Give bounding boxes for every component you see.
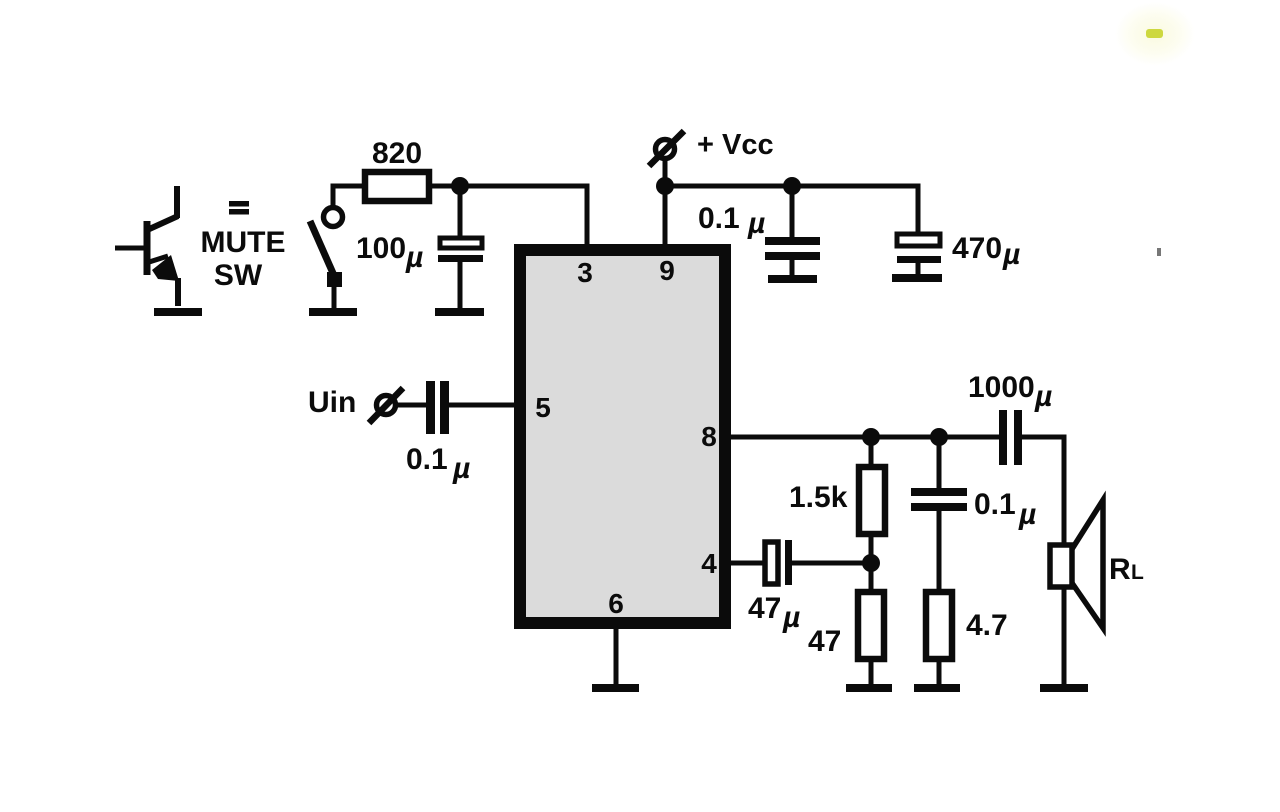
svg-text:8: 8	[701, 421, 717, 452]
wire junction D to feedback cap	[937, 437, 942, 491]
svg-text:µ: µ	[1034, 380, 1052, 413]
ground (4.7 resistor)	[914, 684, 960, 692]
label 0.1u (input)	[406, 443, 470, 485]
label 47u	[748, 592, 800, 634]
svg-text:µ: µ	[782, 601, 800, 634]
resistor R 1.5k	[859, 467, 885, 534]
gray speck	[1157, 248, 1161, 256]
svg-text:470: 470	[952, 232, 1002, 265]
svg-text:Uin: Uin	[308, 386, 356, 419]
speaker RL	[1050, 500, 1103, 628]
ground (pin 6)	[592, 684, 639, 692]
node junction C	[862, 428, 880, 446]
resistor R 820	[365, 172, 429, 201]
op-amp U1 (IC body)	[520, 250, 725, 623]
wire junction C to 1.5k	[869, 437, 874, 467]
capacitor C 0.1u (Vcc decoupling)	[765, 241, 820, 276]
node junction E	[862, 554, 880, 572]
node Vcc junction	[656, 177, 674, 195]
svg-text:47: 47	[808, 625, 841, 658]
capacitor C 100u (polarized)	[438, 238, 483, 308]
svg-text:47: 47	[748, 592, 781, 625]
svg-text:0.1: 0.1	[698, 202, 740, 235]
capacitor C 0.1u (input)	[426, 381, 449, 434]
svg-text:µ: µ	[452, 452, 470, 485]
ground (47 resistor)	[846, 684, 892, 692]
svg-text:1000: 1000	[968, 371, 1035, 404]
node junction B	[783, 177, 801, 195]
label 1000u	[968, 371, 1052, 413]
svg-text:µ: µ	[1018, 498, 1036, 531]
label RL	[1109, 553, 1144, 586]
label 470u	[952, 232, 1020, 271]
wire pin 9	[663, 186, 668, 244]
svg-text:3: 3	[577, 257, 593, 288]
ground (speaker)	[1040, 684, 1088, 692]
ground (transistor emitter)	[154, 308, 202, 316]
Uin terminal	[369, 388, 403, 423]
ground (100u cap)	[435, 308, 484, 316]
svg-text:µ: µ	[1002, 238, 1020, 271]
ground (switch)	[309, 308, 357, 316]
svg-text:L: L	[1131, 561, 1144, 584]
wire output cap to speaker	[1022, 437, 1064, 685]
label 0.1u (feedback)	[974, 488, 1036, 531]
svg-text:4: 4	[701, 548, 717, 579]
wire feedback cap to 4.7	[937, 511, 942, 592]
transistor Q1 (mute equivalent)	[115, 186, 179, 306]
wire pin 4	[731, 561, 764, 566]
svg-text:µ: µ	[405, 241, 423, 274]
svg-text:Vcc: Vcc	[722, 129, 774, 161]
node junction D	[930, 428, 948, 446]
wire input cap to pin 5	[449, 403, 514, 408]
switch S1	[310, 208, 343, 309]
wire Vcc rail	[665, 186, 918, 234]
wire pin 8 output rail	[731, 435, 1000, 440]
wire junction B to 0.1u cap	[790, 186, 795, 237]
svg-text:100: 100	[356, 232, 406, 265]
svg-text:820: 820	[372, 137, 422, 170]
svg-text:1.5k: 1.5k	[789, 481, 848, 514]
svg-text:0.1: 0.1	[974, 488, 1016, 521]
wire junction E to 47	[869, 563, 874, 592]
svg-text:R: R	[1109, 553, 1131, 586]
wire resistor to pin3 corner	[429, 186, 587, 244]
wire switch to resistor 820	[333, 186, 362, 208]
svg-text:µ: µ	[747, 207, 765, 240]
svg-text:4.7: 4.7	[966, 609, 1008, 642]
equals sign	[229, 201, 249, 215]
resistor R 47	[858, 592, 884, 659]
capacitor C 470u (polarized)	[897, 234, 941, 275]
wire pin 6 to ground	[614, 629, 619, 685]
svg-text:9: 9	[659, 255, 675, 286]
capacitor C 47u (polarized)	[765, 540, 792, 585]
wire 47 to ground	[869, 659, 874, 685]
wire junction to 100u cap	[458, 186, 463, 238]
yellow mark	[1115, 2, 1195, 66]
wire 4.7 to ground	[937, 659, 942, 685]
resistor R 4.7	[926, 592, 952, 659]
node junction A	[451, 177, 469, 195]
svg-text:5: 5	[535, 392, 551, 423]
wire Uin to input cap	[395, 403, 427, 408]
svg-text:6: 6	[608, 588, 624, 619]
label MUTE SW	[201, 226, 286, 292]
wire 47u cap to junction E	[792, 561, 864, 566]
ground (0.1u cap)	[768, 275, 817, 283]
capacitor C 1000u (output)	[999, 410, 1022, 465]
label + Vcc	[697, 129, 774, 161]
Vcc terminal	[649, 131, 684, 186]
ground (470u cap)	[892, 274, 942, 282]
svg-text:MUTE: MUTE	[201, 226, 286, 259]
wire 1.5k to junction E	[869, 534, 874, 563]
capacitor C 0.1u (feedback)	[911, 492, 967, 507]
svg-text:+: +	[697, 129, 714, 161]
label 100u	[356, 232, 423, 274]
label 0.1u (vcc)	[698, 202, 765, 240]
svg-text:0.1: 0.1	[406, 443, 448, 476]
svg-text:SW: SW	[214, 259, 263, 292]
